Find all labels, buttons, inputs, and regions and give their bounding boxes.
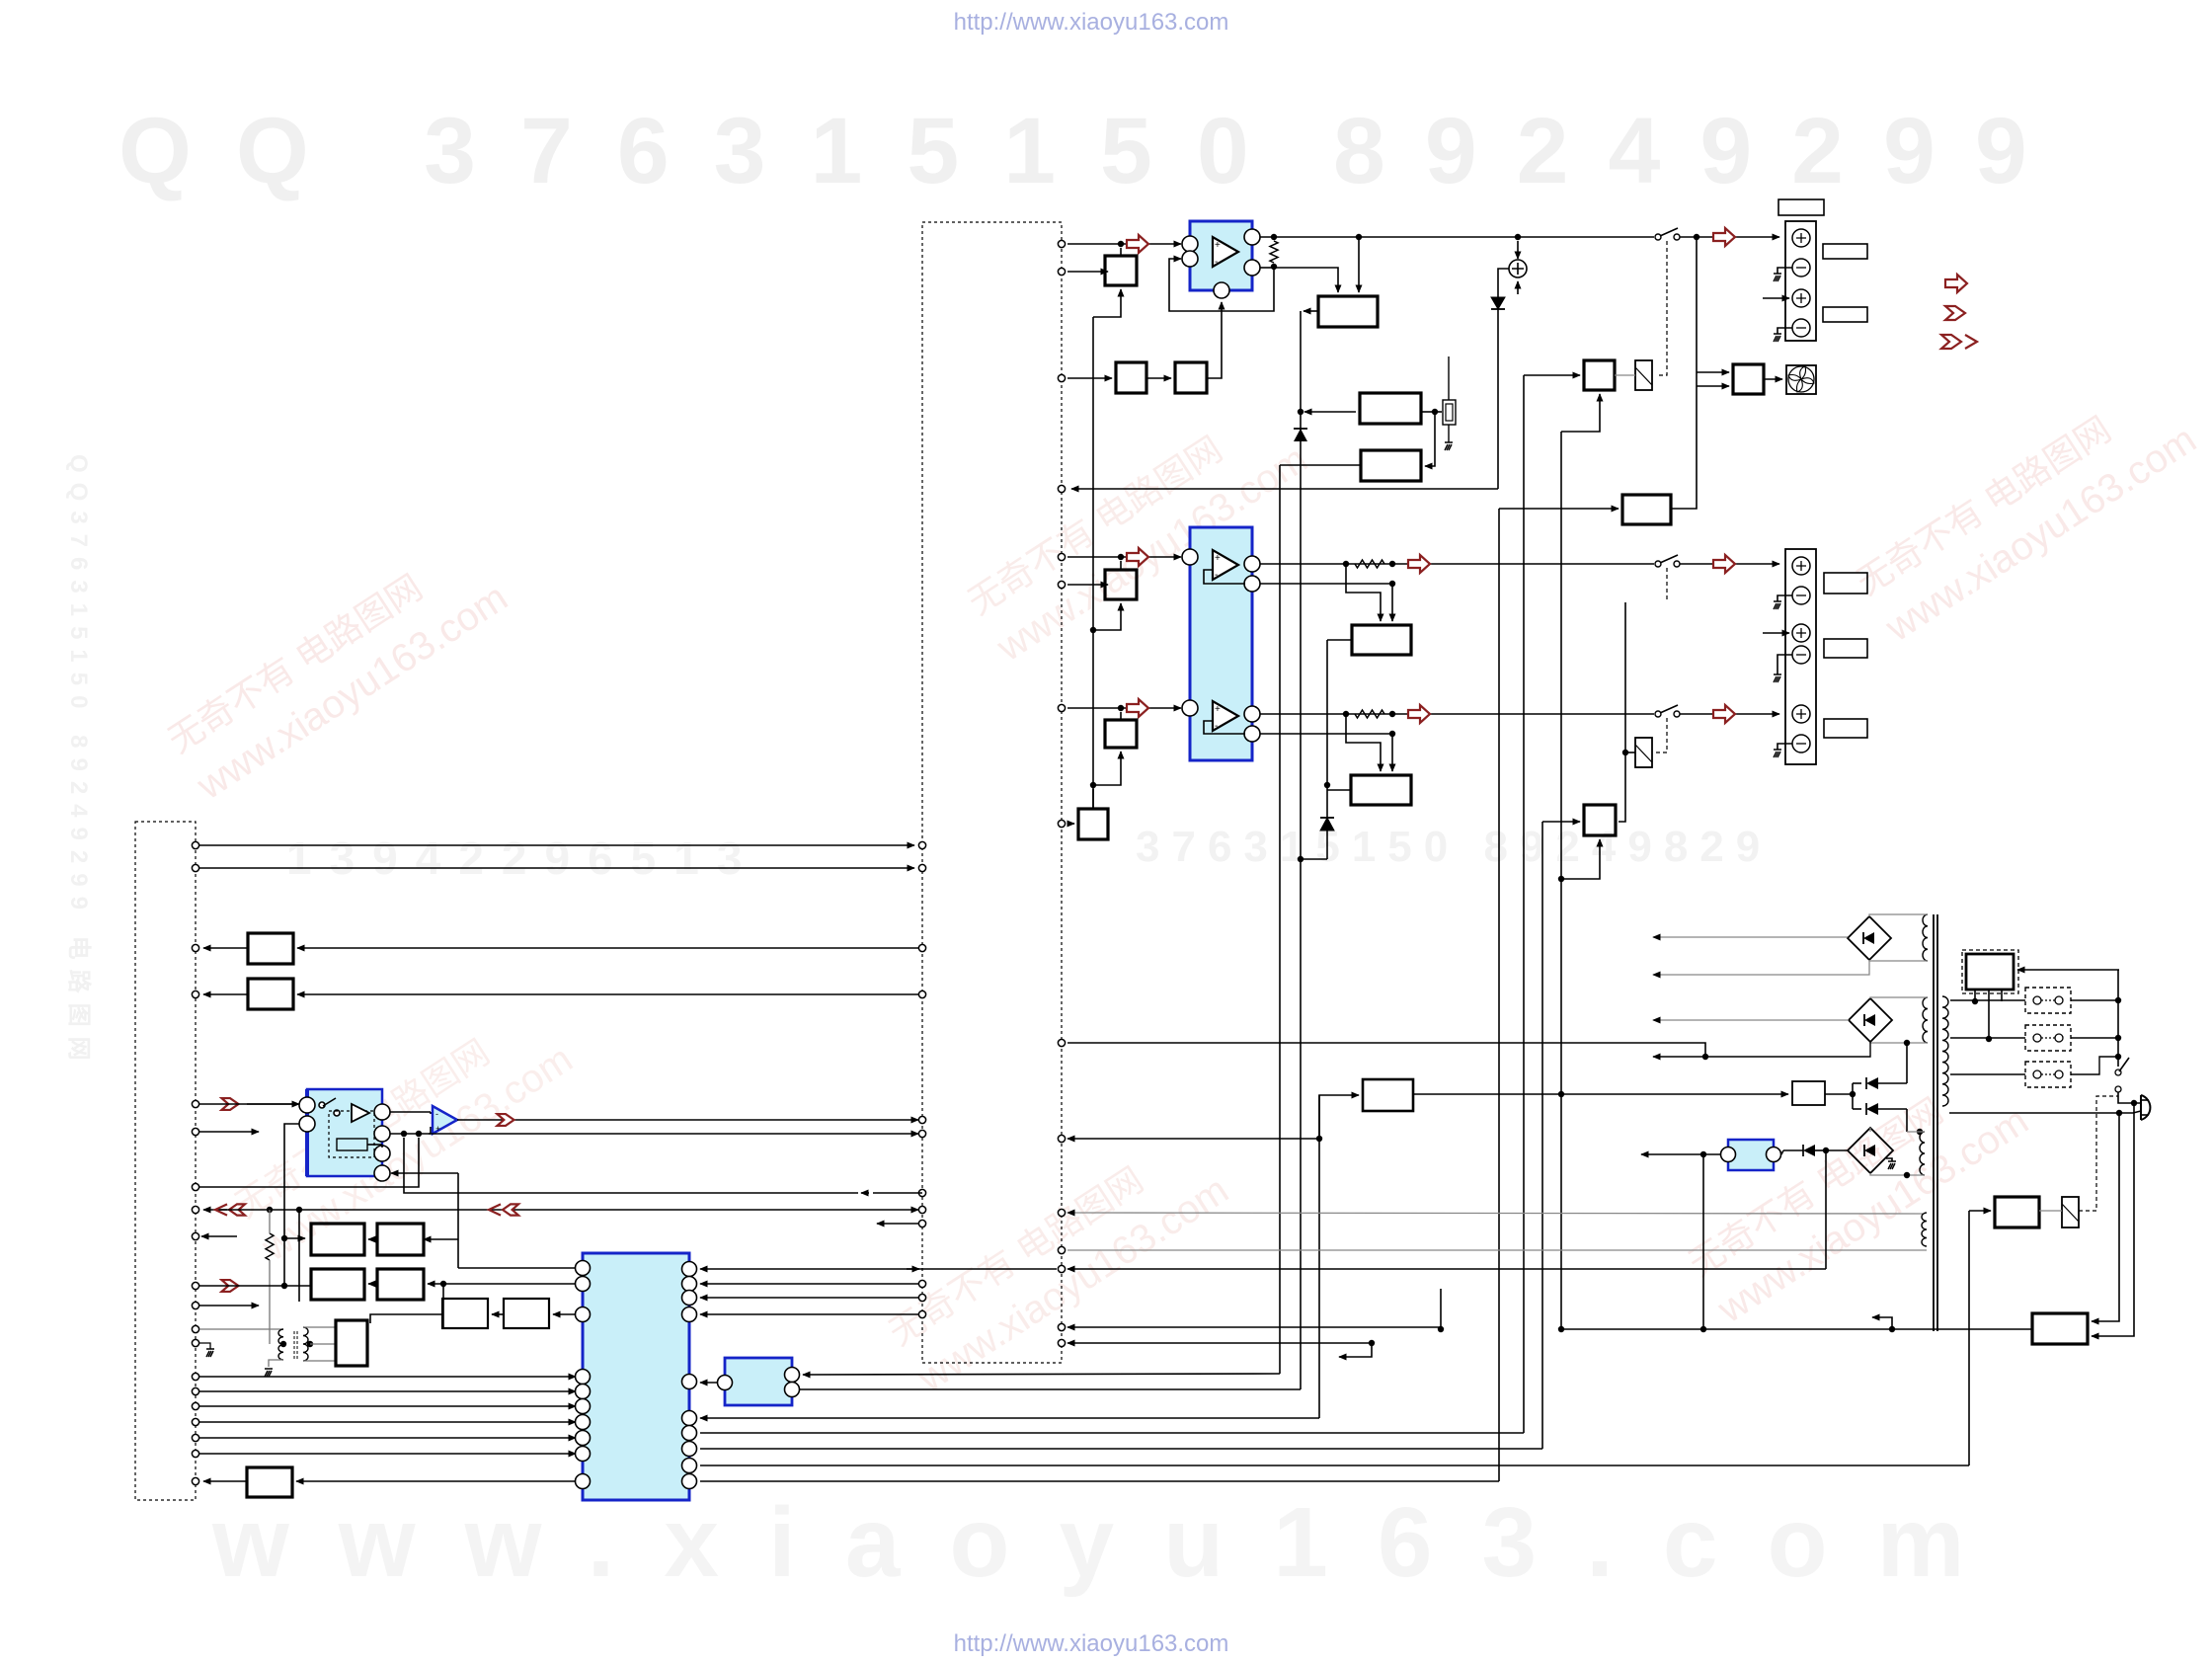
wire TB2 minus2 gnd — [1777, 655, 1792, 674]
wire 1346 to coil — [199, 1328, 283, 1330]
op-amp U2 C — [1213, 701, 1238, 731]
pin U4 right 1451 — [682, 1426, 697, 1441]
node junction 1876,1108 — [1850, 1091, 1856, 1097]
wire K1 in right — [1358, 237, 1360, 292]
wire E1 left — [1327, 639, 1352, 641]
wire coil top to box — [303, 1326, 336, 1328]
node junction 1725,1346 — [1700, 1326, 1706, 1332]
wire U1 out1 — [1260, 236, 1654, 238]
pin U4 left 1456 — [576, 1431, 591, 1446]
node terminal center-left 878 — [918, 864, 925, 871]
wire tap B2 — [1093, 603, 1121, 630]
terminal TB2 plus1 — [1792, 557, 1810, 575]
wire vertical x1107 — [1092, 317, 1094, 809]
wire row3A left — [370, 1314, 442, 1323]
wire hook 1334 — [1872, 1317, 1892, 1329]
arrow chevron in 1302 — [222, 1280, 239, 1292]
node terminal center-left 1239 — [918, 1220, 925, 1227]
wire sec line2 — [1950, 1037, 2025, 1039]
node junction 1344,795 — [1324, 782, 1330, 788]
wire V5 mid — [1326, 785, 1328, 818]
wire plug down b — [2092, 1103, 2134, 1336]
pin U4 left 1500 — [576, 1474, 591, 1489]
node junction 2161,1117 — [2131, 1100, 2137, 1106]
node junction 1718,240 — [1694, 234, 1699, 240]
box protection 2 — [248, 979, 293, 1009]
wire B6 to U1 fb — [1207, 302, 1222, 378]
box mute D1 — [1622, 495, 1671, 524]
wire into box1 y960 — [297, 947, 918, 949]
node terminal center 275 — [1058, 268, 1065, 275]
wire E2 in2 — [1391, 734, 1393, 771]
box row3 B — [504, 1299, 549, 1328]
node junction 1581,1108 — [1558, 1091, 1564, 1097]
wire U4 R1300 — [700, 1283, 918, 1285]
wire bus 1451 — [700, 1432, 1524, 1434]
stub arrow 1252 — [201, 1235, 237, 1237]
node junction 1107,795 — [1090, 782, 1096, 788]
node junction 1410,743 — [1389, 731, 1395, 737]
legend chevron single — [1945, 306, 1965, 320]
pin U4 right 1300 — [682, 1277, 697, 1292]
ground crystal — [1445, 442, 1453, 450]
wire 1360 — [1067, 1342, 1372, 1344]
node terminal center 1360 — [1058, 1339, 1065, 1346]
pin U4 right 1399 — [682, 1375, 697, 1389]
pin U5 right1 — [785, 1368, 800, 1383]
node junction 1135,717 — [1118, 705, 1124, 711]
box level B3 — [1105, 720, 1137, 748]
node terminal center 1314 — [918, 1294, 925, 1301]
node terminal center-left 1208 — [918, 1189, 925, 1196]
pin U3 in1 — [299, 1097, 315, 1113]
pin U4 right 1314 — [682, 1291, 697, 1306]
node junction 1376,240 — [1356, 234, 1362, 240]
switch SW2 — [1655, 561, 1661, 567]
node junction 273,1225 — [267, 1207, 273, 1213]
stub arrow 592 — [1067, 584, 1108, 586]
node terminal left 1424 — [192, 1402, 198, 1409]
wire TB2 plus2 in — [1763, 632, 1789, 634]
wire I to F — [1413, 1093, 1788, 1095]
wire pm down1 — [1974, 990, 1976, 1001]
wire B5-B6 — [1146, 377, 1171, 379]
wire U2 out C — [1260, 713, 1654, 715]
wire BR1 out1 — [1653, 936, 1848, 938]
switch SW mains — [2115, 1069, 2121, 1075]
wire TB1 minus2 gnd — [1777, 328, 1792, 334]
crystal X1 — [1435, 411, 1442, 413]
wire stub 1459 up — [1440, 1289, 1442, 1329]
box relay driver C1 — [1584, 360, 1615, 390]
node terminal left 1500 — [192, 1477, 198, 1484]
node junction 1107,638 — [1090, 627, 1096, 633]
wire U4 to box 1500 — [296, 1480, 578, 1482]
wire B1 top — [1120, 248, 1122, 256]
wire branch into row1 box — [284, 1237, 305, 1239]
wire vertical V3 x1562 — [1541, 822, 1543, 1449]
wire fan feed1 — [1697, 371, 1729, 373]
fuse link FL2 — [2025, 1025, 2071, 1051]
vert 449 down — [442, 1284, 444, 1328]
wire V4 to C2 bottom — [1561, 839, 1600, 879]
arrow chevron left 1225a — [215, 1204, 227, 1215]
transformer T2 primary coil — [1942, 996, 1948, 1106]
node terminal center-left 1133 — [918, 1116, 925, 1123]
wire row2 B to A — [368, 1283, 377, 1285]
node junction 1135,247 — [1118, 241, 1124, 247]
wire sec line3b — [2071, 1057, 2118, 1074]
wire U1 out2 seg — [1260, 267, 1274, 269]
pin U4 right 1285 — [682, 1262, 697, 1277]
terminal TB1 plus1 — [1792, 229, 1810, 247]
wire in chC — [1067, 707, 1181, 709]
wire bus 1500 — [700, 1480, 1499, 1482]
svg-text:+: + — [1215, 553, 1221, 564]
fuse link FL1 — [2025, 988, 2071, 1013]
wire vertical x1336 — [1318, 1095, 1320, 1418]
summer circle-plus — [1509, 260, 1527, 277]
IC U1 power amp A — [1190, 221, 1252, 290]
svg-text:QQ376315150 89249299 电路图网: QQ376315150 89249299 电路图网 — [65, 454, 93, 1070]
node junction 1459,1346 — [1438, 1326, 1444, 1332]
wire U4pin3 to row3B — [553, 1313, 578, 1315]
node terminal left 1146 — [192, 1128, 198, 1135]
diode D3b — [1852, 1094, 1854, 1109]
arrow red chC out1 — [1408, 705, 1430, 723]
op-amp A1 — [433, 1106, 457, 1134]
label box spk2 R2 — [1824, 639, 1867, 658]
wire to summer — [1517, 241, 1519, 259]
node junction 1410,571 — [1389, 561, 1395, 567]
wire into box2 y1007 — [297, 993, 918, 995]
node junction 449,1300 — [440, 1281, 446, 1287]
pin U4 left 1284 — [576, 1261, 591, 1276]
wire 1285 right seg — [1067, 1268, 1826, 1270]
node terminal left 1409 — [192, 1387, 198, 1394]
box relay driver H — [1995, 1197, 2039, 1227]
wire U3 small box to out3 — [367, 1144, 382, 1146]
wire in chB — [1067, 556, 1181, 558]
wire from box to terminal y960 — [203, 947, 248, 949]
wire U4 R1314 — [700, 1297, 918, 1299]
wire summer left — [1498, 269, 1509, 297]
wire tap B1 — [1093, 289, 1121, 317]
watermark pink diagonal 3 — [1849, 372, 2204, 650]
wire D3a up — [1906, 1043, 1908, 1083]
pin U4 left 1300 — [576, 1277, 591, 1292]
box E1 feedback — [1352, 625, 1411, 655]
pin U4 left 1472 — [576, 1447, 591, 1462]
ground TB2 c — [1774, 750, 1781, 757]
bus wire y1456 — [199, 1437, 576, 1439]
ground TB2 a — [1774, 601, 1781, 609]
wire vertical V4 x1581 — [1560, 432, 1562, 1329]
label box spk1 — [1778, 199, 1824, 215]
wire U3 in2 down — [284, 1124, 299, 1286]
wire 834 into B4 — [1067, 823, 1074, 825]
wire U5 to U4 — [700, 1382, 718, 1384]
wire hook 1374 — [1339, 1343, 1372, 1357]
plug AC — [2141, 1095, 2150, 1120]
pin U1 out1 — [1244, 229, 1260, 245]
node junction 1290,240 — [1271, 234, 1277, 240]
wire x1849 up — [1825, 1150, 1827, 1269]
svg-text:QQ 376315150: QQ 376315150 — [118, 99, 1294, 203]
wire stub 1239 — [877, 1223, 918, 1225]
svg-text:http://www.xiaoyu163.com: http://www.xiaoyu163.com — [954, 1630, 1229, 1657]
wire H-RY3 — [2039, 1210, 2062, 1212]
node terminal left 1118 — [192, 1100, 198, 1107]
transformer T2 core — [1933, 914, 1935, 1331]
terminal block TB1 — [1785, 221, 1816, 341]
pin U4 right 1500 — [682, 1474, 697, 1489]
wire x1646 — [1619, 602, 1625, 822]
stub arrow 1146 — [199, 1131, 259, 1133]
pin U4 right 1467 — [682, 1442, 697, 1457]
node junction 1581,1346 — [1558, 1326, 1564, 1332]
wire fan feed2 — [1697, 385, 1729, 387]
fan motor M — [1786, 365, 1816, 394]
pin U3 in2 — [299, 1116, 315, 1132]
IC U5 interface — [725, 1358, 792, 1405]
node junction 1581,890 — [1558, 876, 1564, 882]
dashed link SW3-RY2 — [1656, 718, 1667, 752]
small box inside U3 — [337, 1139, 367, 1150]
node terminal center 247 — [1058, 240, 1065, 247]
wire RY2 left — [1625, 752, 1635, 753]
node junction 1849,1165 — [1823, 1148, 1829, 1153]
vert x464 lower — [457, 1239, 459, 1268]
arrow red chC out2 — [1713, 705, 1735, 723]
IC U6 photocoupler — [1728, 1140, 1774, 1170]
svg-text:-: - — [435, 1109, 438, 1119]
legend arrow signal — [1945, 275, 1967, 292]
svg-text:+: + — [1215, 704, 1221, 715]
wire neutral to plug — [2119, 1111, 2141, 1113]
pin U3 out1 — [374, 1104, 390, 1120]
box reset bottom — [247, 1467, 292, 1497]
wire 1153 vert — [1319, 1095, 1359, 1139]
dashed RY3 up — [2079, 1096, 2118, 1211]
connector dashed box center — [922, 222, 1062, 1363]
ground TB1 a — [1774, 274, 1781, 281]
watermark pink diagonal 6 — [227, 995, 581, 1270]
pin U3 out2 — [374, 1126, 390, 1142]
wire BR1 out2 — [1653, 960, 1869, 975]
pin U1 fb — [1214, 282, 1229, 298]
wire U1 feedback loop — [1169, 259, 1274, 311]
wire U3 out1 to opamp — [390, 1111, 431, 1113]
wire resistor down to transformer — [269, 1260, 271, 1344]
vert 409 to 1208 stub — [404, 1138, 858, 1193]
node terminal left 1346 — [192, 1325, 198, 1332]
wire bus 1467 — [700, 1448, 1542, 1450]
wire BR3 left — [1829, 1149, 1848, 1151]
bus wire y1440 — [199, 1421, 576, 1423]
node terminal left 879 — [192, 864, 198, 871]
wire V1 to D1 — [1499, 508, 1619, 510]
node junction 1290,270 — [1271, 264, 1277, 270]
svg-text:www.xiaoyu163.com: www.xiaoyu163.com — [211, 1487, 2014, 1598]
wire K1 in left — [1274, 268, 1338, 292]
arrow red chB in — [1127, 548, 1148, 566]
svg-text:+: + — [1215, 240, 1221, 251]
node junction 1453,417 — [1432, 409, 1438, 415]
wire x1725 down — [1702, 1154, 1704, 1329]
svg-text:-: - — [1215, 721, 1218, 732]
node junction 1389,1360 — [1369, 1340, 1375, 1346]
wire V7b down — [1425, 412, 1435, 466]
diode D2 up — [1320, 818, 1334, 831]
watermark pink diagonal 5 — [1681, 1054, 2036, 1331]
node terminal left 856 — [192, 841, 198, 848]
dashed inner box U3 — [329, 1111, 374, 1157]
wire BR2 bottom — [1870, 1042, 1928, 1043]
node terminal left 1302 — [192, 1282, 198, 1289]
wire TB1 plus2 in — [1763, 297, 1789, 299]
wire BR2 out1 — [1653, 1019, 1849, 1021]
svg-text:http://www.xiaoyu163.com: http://www.xiaoyu163.com — [954, 9, 1229, 36]
node junction 1317,870 — [1298, 856, 1303, 862]
wire 1202 feedback — [199, 1138, 419, 1187]
node terminal left 1224 — [192, 1206, 198, 1213]
arrow into edge 1285 — [907, 1268, 919, 1270]
wire U2 out B — [1260, 563, 1654, 565]
box row2 A — [311, 1269, 364, 1300]
resistor R1 out — [1270, 241, 1278, 263]
dashed link SW1-RY1 — [1656, 241, 1667, 375]
wire K1 out left — [1303, 310, 1318, 312]
node terminal left 960 — [192, 944, 198, 951]
wire 1056 — [1067, 1043, 1705, 1057]
switch SW1 — [1655, 234, 1661, 240]
node junction 1410,723 — [1389, 711, 1395, 717]
node terminal left 1202 — [192, 1183, 198, 1190]
node terminal center-left 1007 — [918, 990, 925, 997]
wire U3 out2 to opamp plus — [390, 1133, 431, 1135]
pin U2 out1 C — [1244, 706, 1260, 722]
wire U4 R1436 — [700, 1417, 1319, 1419]
watermark pink diagonal 4 — [881, 1123, 1236, 1400]
node terminal center 1266 — [1058, 1246, 1065, 1253]
wire vertical V7 x1317 — [1300, 489, 1302, 1389]
wire row3 B to A — [492, 1313, 504, 1315]
wire coil sec to box — [310, 1343, 336, 1345]
node terminal center 1300 — [918, 1280, 925, 1287]
wire V3 to C2 — [1542, 821, 1580, 823]
arrow chevron out 1134 — [498, 1114, 514, 1126]
bus wire y1424 — [199, 1405, 576, 1407]
label box spk1 R2 — [1823, 307, 1867, 322]
wire bus 1484 — [700, 1465, 1969, 1466]
wire 1148 long — [429, 1133, 918, 1135]
vert x464 — [457, 1173, 459, 1239]
wire C1-RY1 — [1615, 374, 1635, 376]
node junction 1410,591 — [1389, 581, 1395, 587]
node junction 1916,1346 — [1889, 1326, 1895, 1332]
box level B4 — [1078, 809, 1108, 839]
svg-text:-: - — [1215, 570, 1218, 581]
arrow chevron left 1225b — [489, 1204, 501, 1215]
wire after SW3 — [1680, 713, 1779, 715]
pin U2 out2 B — [1244, 576, 1260, 592]
node junction 2014,1052 — [1986, 1036, 1992, 1042]
arrow into terminal 1225 — [203, 1209, 227, 1211]
ground BR3 — [1886, 1158, 1892, 1161]
terminal TB1 minus2 — [1792, 319, 1810, 337]
stub arrow 1322 — [199, 1305, 259, 1307]
node terminal left 1360 — [192, 1339, 198, 1346]
box regulator I — [1363, 1079, 1413, 1111]
wire in ch1 — [1067, 243, 1181, 245]
wire row1 B to A — [368, 1238, 377, 1240]
pin U3 out3 — [374, 1146, 390, 1161]
pin U5 left — [718, 1376, 733, 1390]
switch inside U3 — [319, 1102, 325, 1108]
transformer T2 sec2 coil — [1923, 997, 1928, 1043]
node junction 1931,1190 — [1904, 1172, 1910, 1178]
bridge rectifier BR3 — [1848, 1128, 1893, 1173]
box row3 A — [442, 1299, 488, 1328]
ground left small — [206, 1349, 214, 1357]
label box spk1 R1 — [1823, 244, 1867, 259]
wire pm down3 — [2001, 990, 2003, 1001]
dashed link SW2 — [1666, 568, 1668, 601]
wire after SW1 — [1680, 236, 1779, 238]
terminal TB1 plus2 — [1792, 289, 1810, 307]
box protection 1 — [248, 933, 293, 964]
box level B1 — [1105, 256, 1137, 285]
wire U3 out4 arrow — [391, 1172, 458, 1174]
fuse link FL3 — [2025, 1062, 2071, 1087]
wire TB1 minus1 gnd — [1777, 268, 1792, 274]
pin U4 right 1484 — [682, 1459, 697, 1473]
wire vertical V6 x1296 — [1279, 465, 1281, 1374]
wire 495 long — [1071, 488, 1498, 490]
bridge rectifier BR2 — [1849, 998, 1892, 1042]
resistor R2 ch B — [1355, 560, 1384, 568]
node terminal center 500 — [1058, 485, 1065, 492]
node terminal center 1331 — [918, 1310, 925, 1317]
node terminal center-left 857 — [918, 841, 925, 848]
node terminal center 1228 — [1058, 1209, 1065, 1216]
arrow red chB out2 — [1713, 555, 1735, 573]
diode D1 down — [1491, 297, 1505, 309]
wire BR3 bottom — [1870, 1173, 1925, 1175]
wire opamp out — [457, 1119, 918, 1121]
IC U4 system control — [583, 1253, 689, 1500]
wire BR3 top — [1869, 1128, 1871, 1132]
box K3 vdet2 — [1361, 450, 1421, 481]
transformer T1 secondary coil — [303, 1327, 308, 1361]
diode D5 up — [1294, 429, 1307, 441]
wire after SW2 — [1680, 563, 1779, 565]
wire 1360 gnd — [199, 1343, 210, 1349]
pin U4 left 1331 — [576, 1307, 591, 1322]
wire F right — [1825, 1093, 1853, 1095]
pin U1 out2 — [1244, 260, 1260, 276]
wire 1302 — [199, 1285, 311, 1287]
wire V8 into H — [1969, 1210, 1991, 1212]
box filter B5 — [1116, 362, 1146, 393]
label box spk2 R3 — [1824, 719, 1867, 738]
wire sec line1b — [2071, 999, 2118, 1001]
wire to center edge y856 — [199, 844, 914, 846]
node terminal left 1007 — [192, 990, 198, 997]
box K2 vdet — [1360, 393, 1421, 424]
wire mains neutral — [1949, 1111, 2119, 1113]
